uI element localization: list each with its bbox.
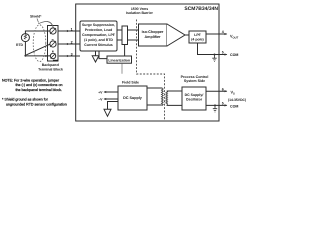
svg-text:(4 pole): (4 pole) [191, 38, 203, 42]
svg-text:DC Supply/: DC Supply/ [185, 93, 204, 97]
svg-text:Isolation Barrier: Isolation Barrier [126, 11, 153, 15]
svg-text:Compensation, LPF: Compensation, LPF [82, 33, 116, 37]
svg-text:–V: –V [98, 97, 103, 101]
svg-text:SCM7B34/34N: SCM7B34/34N [184, 6, 218, 12]
svg-text:Field Side: Field Side [122, 80, 139, 84]
svg-text:2: 2 [71, 41, 73, 45]
svg-text:3: 3 [71, 53, 73, 57]
svg-text:Iso-Chopper: Iso-Chopper [142, 30, 164, 34]
svg-text:DC Supply: DC Supply [123, 96, 143, 100]
svg-text:System Side: System Side [184, 79, 205, 83]
svg-text:5: 5 [222, 51, 224, 55]
svg-text:4: 4 [222, 30, 224, 34]
svg-text:the backpanel terminal block.: the backpanel terminal block. [16, 88, 63, 92]
svg-text:(14-35VDC): (14-35VDC) [228, 98, 246, 102]
svg-text:the (-) and (x) connections on: the (-) and (x) connections on [16, 83, 63, 87]
svg-text:Surge Suppression,: Surge Suppression, [82, 23, 115, 27]
svg-text:* Shield ground as shown for: * Shield ground as shown for [2, 97, 49, 101]
svg-text:(1 pole), and RTD: (1 pole), and RTD [84, 38, 113, 42]
svg-text:Terminal Block: Terminal Block [38, 67, 63, 71]
svg-text:5: 5 [222, 102, 224, 106]
svg-text:6: 6 [222, 87, 224, 91]
svg-text:1: 1 [71, 28, 73, 32]
svg-text:Protection, Lead: Protection, Lead [85, 28, 112, 32]
svg-text:Amplifier: Amplifier [145, 35, 162, 39]
svg-text:Shield*: Shield* [30, 15, 42, 19]
svg-text:COM: COM [230, 105, 238, 109]
svg-text:RTD: RTD [16, 43, 24, 47]
svg-text:COM: COM [230, 53, 238, 57]
svg-text:Linearization: Linearization [108, 58, 130, 62]
svg-text:LPF: LPF [194, 33, 201, 37]
svg-text:+V: +V [98, 90, 103, 94]
svg-text:Oscillator: Oscillator [186, 98, 203, 102]
svg-text:ungrounded RTD sensor configur: ungrounded RTD sensor configuration [6, 102, 67, 106]
svg-text:NOTE: For 2-wire operation, j: NOTE: For 2-wire operation, jumper [2, 78, 60, 82]
svg-text:Current Stimulus: Current Stimulus [84, 43, 112, 47]
